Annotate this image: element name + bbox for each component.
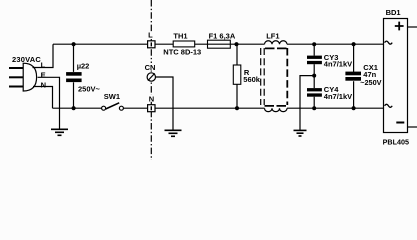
svg-text:LF1: LF1 — [266, 31, 279, 40]
pin N tick — [150, 106, 152, 110]
choke LF1 core dash top — [265, 47, 287, 49]
connector prong L — [9, 67, 23, 69]
svg-text:SW1: SW1 — [104, 92, 120, 101]
svg-text:NTC 8D-13: NTC 8D-13 — [163, 48, 201, 57]
capacitor CY3 top lead — [313, 44, 315, 55]
wire BD1 plus output — [408, 26, 417, 28]
svg-text:CN: CN — [145, 63, 156, 72]
junction fuse-R — [234, 42, 238, 46]
switch SW1 lever — [106, 103, 120, 109]
resistor R top lead — [236, 44, 238, 65]
bridge BD1 minus sign — [396, 122, 404, 124]
wire bottom rail right — [287, 107, 384, 109]
connector CN slash — [148, 73, 155, 80]
choke LF1 top winding — [265, 41, 288, 44]
svg-text:4n7/1kV: 4n7/1kV — [324, 60, 352, 69]
svg-text:E: E — [41, 71, 46, 80]
choke LF1 core dashed left pair — [260, 48, 262, 105]
junction u22 bottom — [72, 106, 76, 110]
connector prong N — [9, 86, 23, 88]
junction R bottom — [235, 106, 239, 110]
svg-text:~250V: ~250V — [360, 78, 381, 87]
svg-text:PBL405: PBL405 — [383, 137, 409, 146]
junction CX1 top — [352, 42, 356, 46]
junction CX1 bottom — [352, 106, 356, 110]
pin L square — [148, 41, 155, 48]
pin N square — [148, 105, 155, 112]
wire bottom rail middle — [155, 107, 265, 109]
connector P1 230VAC body — [23, 63, 36, 91]
wire bottom rail left — [53, 107, 102, 109]
wire N from connector down to bottom rail — [33, 87, 53, 109]
pin L tick — [150, 42, 152, 46]
choke LF1 bottom winding — [265, 108, 288, 111]
connector CN circle — [147, 73, 155, 81]
connector prong E — [9, 76, 23, 78]
bridge BD1 box — [384, 19, 408, 133]
capacitor CX1 plates — [345, 72, 361, 76]
wire BD1 minus output — [408, 126, 417, 128]
ground earth E — [51, 129, 68, 135]
wire top rail through fuse — [195, 43, 265, 45]
capacitor C1 u22 plates — [66, 72, 82, 76]
svg-text:4n7/1kV: 4n7/1kV — [324, 92, 352, 101]
choke LF1 core dashed right — [286, 48, 288, 105]
capacitor CY4 plates — [307, 88, 322, 91]
bridge BD1 ac top symbol — [385, 41, 393, 44]
junction u22 top — [72, 42, 76, 46]
label mask L — [147, 32, 153, 40]
wire top rail right — [287, 43, 384, 45]
svg-text:230VAC: 230VAC — [12, 55, 41, 64]
capacitor CX1 bottom lead — [353, 81, 355, 108]
wire CN to chassis ground — [156, 77, 174, 130]
wire top rail middle — [155, 43, 173, 45]
junction CY3 top — [312, 42, 316, 46]
boundary dash-dot line — [150, 0, 152, 160]
capacitor CY4 bottom lead — [313, 97, 315, 109]
resistor R bottom lead — [236, 84, 238, 108]
bridge BD1 plus sign — [395, 22, 404, 31]
capacitor CY4 top lead — [313, 76, 315, 89]
capacitor C1 u22 bottom lead — [73, 82, 75, 108]
svg-text:N: N — [149, 94, 154, 103]
choke LF1 core dash bottom — [265, 105, 287, 107]
resistor R body — [233, 65, 241, 84]
svg-text:L: L — [148, 31, 153, 40]
capacitor CY3 bottom lead — [313, 64, 315, 75]
junction CY mid — [312, 74, 316, 78]
wire E from connector down to earth — [38, 77, 60, 129]
capacitor C1 u22 top lead — [73, 44, 75, 72]
wire top rail left — [53, 43, 148, 45]
capacitor CY3 plates — [307, 56, 322, 59]
svg-text:TH1: TH1 — [173, 31, 187, 40]
capacitor CX1 top lead — [353, 44, 355, 72]
wire CY mid node to earth — [300, 76, 314, 131]
wire L from connector up to top rail — [33, 44, 54, 67]
wire bottom rail switch to N square — [123, 107, 147, 109]
thermistor TH1 body — [173, 41, 195, 47]
svg-text:µ22: µ22 — [77, 62, 90, 71]
switch SW1 contact right — [119, 106, 123, 110]
svg-text:BD1: BD1 — [386, 8, 401, 17]
label mask CN — [144, 63, 156, 71]
label mask N — [148, 95, 155, 102]
svg-text:L: L — [41, 61, 46, 70]
svg-text:F1 6,3A: F1 6,3A — [209, 31, 236, 40]
junction CY4 bottom — [312, 106, 316, 110]
svg-text:250V~: 250V~ — [78, 85, 101, 94]
svg-text:560k: 560k — [243, 75, 261, 84]
svg-text:N: N — [41, 80, 46, 89]
ground chassis CN — [165, 130, 182, 136]
fuse F1 element — [208, 43, 231, 45]
fuse F1 body — [208, 40, 231, 48]
bridge BD1 ac bottom symbol — [385, 104, 393, 107]
switch SW1 contact left — [102, 106, 106, 110]
ground earth CY — [294, 130, 307, 136]
